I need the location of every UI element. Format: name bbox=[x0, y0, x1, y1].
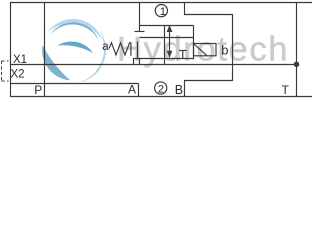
flow arrow heads bbox=[167, 25, 300, 67]
position a port stub left bbox=[133, 59, 135, 65]
svg-text:2: 2 bbox=[158, 83, 164, 95]
valve body bbox=[133, 38, 194, 59]
external pilot dashes bbox=[2, 61, 9, 81]
plugged gauge line bbox=[139, 3, 141, 32]
svg-text:P: P bbox=[34, 83, 42, 97]
plate bottom edge bbox=[11, 96, 313, 98]
gauge circle 2 bbox=[155, 82, 167, 94]
svg-text:b: b bbox=[221, 42, 228, 57]
svg-text:Hydrotech: Hydrotech bbox=[117, 31, 289, 69]
plate right edge bbox=[296, 2, 298, 97]
A port drop bbox=[138, 84, 140, 97]
watermark logo swirl bbox=[42, 19, 106, 83]
plate left edge bbox=[10, 2, 12, 97]
X1 drain line bbox=[11, 64, 297, 66]
P channel vertical bbox=[44, 3, 46, 97]
svg-text:B: B bbox=[175, 83, 183, 97]
position a port stub right bbox=[139, 59, 141, 65]
svg-text:X1: X1 bbox=[13, 54, 27, 66]
junction dot bbox=[294, 62, 300, 68]
spring bbox=[109, 43, 131, 56]
svg-text:T: T bbox=[282, 83, 290, 97]
pilot wire to solenoid bbox=[185, 3, 233, 97]
svg-text:1: 1 bbox=[160, 6, 166, 18]
blocked port T stub bbox=[182, 51, 184, 59]
flow arrow shaft bbox=[169, 26, 171, 57]
svg-text:X2: X2 bbox=[11, 69, 25, 81]
blocked port T bar bbox=[179, 50, 187, 52]
divider port stub bbox=[164, 59, 166, 65]
position divider bbox=[164, 26, 166, 59]
solenoid diagonal bbox=[194, 44, 208, 56]
X2 pilot line bbox=[11, 83, 139, 85]
gauge circle 1 bbox=[155, 5, 167, 17]
solenoid box bbox=[194, 44, 217, 56]
valve body inner left edge bbox=[137, 42, 139, 59]
plug bar bbox=[135, 31, 145, 33]
node 1 bridge bbox=[140, 25, 194, 27]
node 1 bridge leg bbox=[193, 26, 195, 38]
plate top edge bbox=[11, 2, 313, 4]
svg-text:A: A bbox=[128, 82, 136, 96]
svg-text:a: a bbox=[102, 41, 109, 53]
